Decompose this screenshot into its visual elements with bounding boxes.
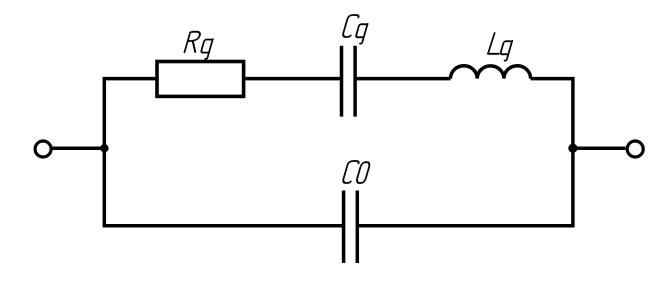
node A junction dot xyxy=(100,144,108,152)
wire bottom rail left: node A to C0 xyxy=(103,224,344,228)
inductor Lq xyxy=(451,66,531,79)
resistor Rq xyxy=(157,62,244,97)
right terminal xyxy=(627,141,643,157)
wire left vertical xyxy=(103,77,107,227)
wire node B to right terminal xyxy=(573,146,626,150)
label Rq xyxy=(183,32,215,59)
capacitor C0 xyxy=(344,191,358,264)
wire resistor to Cq xyxy=(245,77,341,81)
wire Cq to inductor xyxy=(355,77,450,81)
label Cq xyxy=(340,15,370,44)
wire top rail: node A to resistor xyxy=(103,77,157,81)
label C0 xyxy=(342,161,371,183)
wire bottom rail right: C0 to node B xyxy=(357,224,574,228)
node B junction dot xyxy=(568,144,577,153)
wire inductor to right corner xyxy=(531,77,575,81)
wire right vertical xyxy=(571,77,575,227)
wire left terminal to node A xyxy=(53,146,105,150)
left terminal xyxy=(35,141,51,157)
capacitor Cq xyxy=(342,46,356,117)
label Lq xyxy=(486,33,514,61)
